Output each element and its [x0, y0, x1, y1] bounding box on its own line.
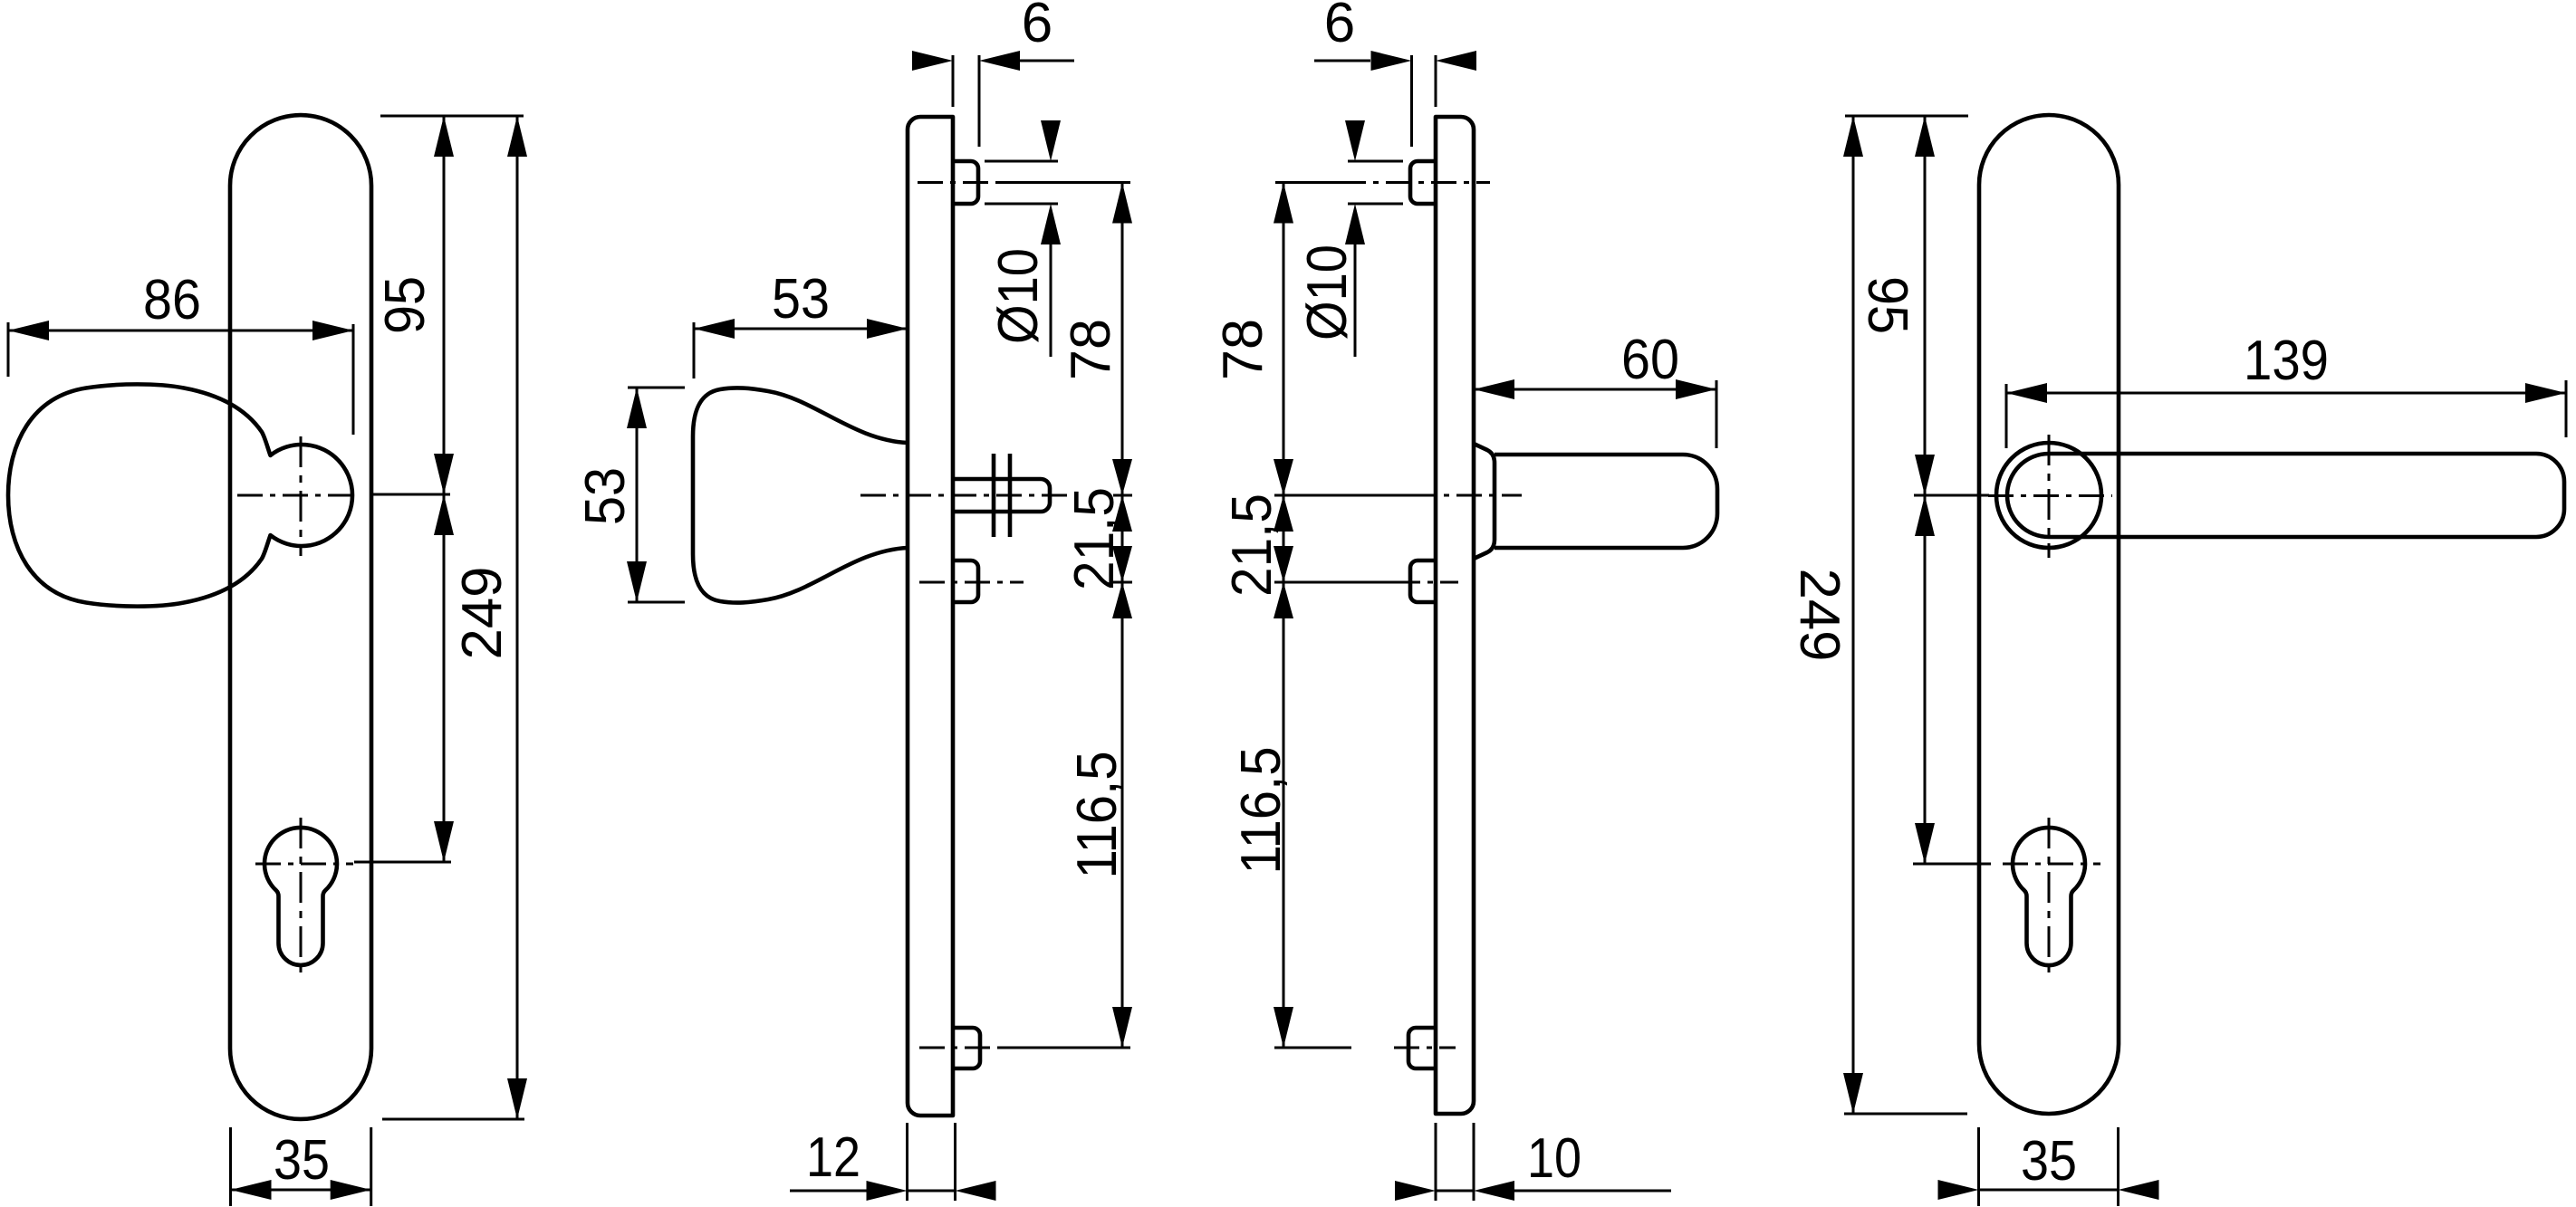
dimension 6 V2: [912, 0, 1074, 147]
dimension Ø10 V3: [1296, 120, 1403, 357]
dimension 60 V3: [1474, 329, 1716, 448]
lever grip V3: [1495, 455, 1717, 548]
top screw stud V2: [918, 161, 1066, 204]
chained dimension line V2: [997, 183, 1132, 1049]
dimension 78 V2: [1060, 183, 1132, 496]
backplate V1 outline: [230, 115, 371, 1119]
dimension 78 V3: [1212, 183, 1293, 496]
PZ cylinder hole V4: [2013, 828, 2085, 965]
dimension 86 V1: [8, 269, 353, 435]
svg-text:12: 12: [806, 1126, 860, 1189]
svg-text:116,5: 116,5: [1230, 747, 1293, 875]
svg-text:60: 60: [1621, 329, 1679, 391]
dimension centre-to-cylinder V4 (unlabelled): [1913, 495, 1991, 864]
dimension 139 V4: [2006, 330, 2566, 448]
dimension 35 V4: [1938, 1127, 2159, 1206]
chained dimension line V3: [1274, 183, 1458, 1049]
svg-text:Ø10: Ø10: [987, 248, 1050, 344]
dimension Ø10 V2: [985, 120, 1061, 357]
dimension 35 V1: [231, 1127, 371, 1206]
dimension 249 V4: [1788, 116, 1967, 1114]
backplate V4 outline: [1979, 115, 2119, 1114]
mid screw stud V3: [1410, 560, 1436, 602]
svg-text:78: 78: [1060, 319, 1122, 380]
svg-text:53: 53: [772, 268, 830, 330]
dimension centre-to-cylinder V1 (unlabelled): [354, 494, 454, 862]
svg-text:95: 95: [374, 276, 437, 334]
dimension 53 vertical V2: [574, 388, 685, 602]
svg-text:35: 35: [2021, 1130, 2077, 1193]
dimension 21,5 V3: [1221, 493, 1293, 597]
backplate V3 profile: [1436, 117, 1474, 1114]
spindle with washers V2: [953, 454, 1050, 537]
mid screw stud V2: [919, 560, 1024, 602]
svg-text:95: 95: [1856, 276, 1918, 334]
lever rose centre lines V4: [1988, 435, 2112, 558]
backplate V2 profile: [908, 117, 953, 1116]
lever centre line V3: [1411, 494, 1522, 497]
spindle centre line V2: [860, 494, 1069, 497]
svg-text:139: 139: [2244, 330, 2329, 392]
PZ hole V4 centre lines: [2003, 818, 2100, 973]
svg-text:86: 86: [143, 269, 201, 331]
svg-text:21,5: 21,5: [1063, 487, 1126, 590]
svg-text:10: 10: [1527, 1127, 1581, 1190]
lever grip bar V4: [2049, 454, 2564, 537]
bottom screw stud V3: [1394, 1028, 1456, 1068]
svg-text:53: 53: [574, 467, 637, 525]
dimension 21,5 V2: [1063, 487, 1132, 590]
dimension 116,5 V3: [1230, 582, 1293, 1048]
svg-text:249: 249: [451, 567, 514, 660]
top screw stud V3: [1341, 161, 1490, 204]
svg-text:78: 78: [1212, 319, 1274, 380]
dimension 116,5 V2: [1066, 582, 1132, 1048]
dimension 12 V2: [790, 1123, 996, 1201]
knob V1 front outline: [8, 384, 352, 606]
bottom screw stud V2: [919, 1028, 996, 1068]
svg-text:35: 35: [274, 1129, 330, 1192]
svg-text:6: 6: [1324, 0, 1355, 54]
PZ hole V1 centre lines: [255, 818, 353, 973]
knob V2 profile: [693, 388, 908, 602]
dimension 10 V3: [1395, 1123, 1671, 1201]
svg-text:Ø10: Ø10: [1296, 244, 1359, 340]
dimension 95 V1: [370, 116, 524, 862]
knob V1 centre crosshair: [237, 436, 359, 556]
svg-text:6: 6: [1022, 0, 1053, 54]
dimension 249 V1: [382, 116, 527, 1119]
lever collar V3: [1474, 444, 1495, 559]
PZ cylinder hole V1: [264, 828, 337, 965]
dimension 53 horizontal V2: [694, 268, 908, 378]
svg-text:21,5: 21,5: [1221, 493, 1283, 597]
svg-text:116,5: 116,5: [1066, 752, 1129, 879]
dimension 95 V4: [1845, 116, 1989, 864]
lever rose V4: [1996, 443, 2101, 548]
svg-text:249: 249: [1788, 569, 1850, 662]
dimension 6 V3: [1314, 0, 1476, 147]
